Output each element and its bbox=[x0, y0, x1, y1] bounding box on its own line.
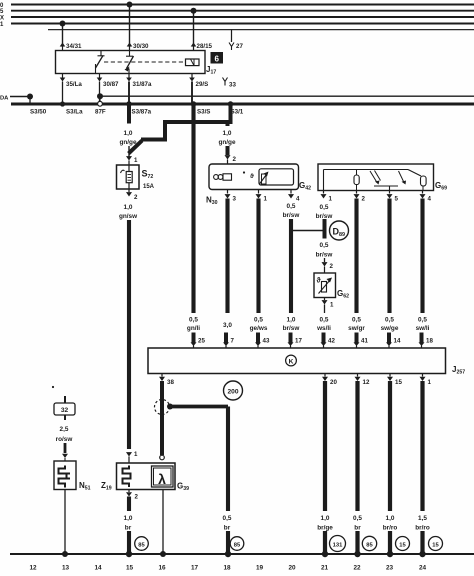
svg-text:33: 33 bbox=[229, 82, 236, 89]
svg-text:br: br bbox=[125, 525, 132, 532]
svg-text:0,5: 0,5 bbox=[287, 203, 296, 210]
svg-text:18: 18 bbox=[426, 338, 433, 345]
svg-text:20: 20 bbox=[288, 565, 296, 572]
svg-text:ϑ: ϑ bbox=[250, 173, 254, 180]
svg-text:85: 85 bbox=[234, 542, 241, 548]
svg-text:1,0: 1,0 bbox=[124, 204, 133, 211]
svg-text:3,0: 3,0 bbox=[223, 322, 232, 329]
svg-text:15: 15 bbox=[126, 565, 134, 572]
svg-text:gn/li: gn/li bbox=[187, 325, 200, 332]
svg-text:3: 3 bbox=[233, 196, 237, 203]
svg-text:K: K bbox=[289, 359, 294, 366]
svg-text:ws/li: ws/li bbox=[316, 325, 331, 332]
svg-text:0,5: 0,5 bbox=[418, 317, 427, 324]
svg-text:0,5: 0,5 bbox=[385, 317, 394, 324]
svg-text:X: X bbox=[0, 16, 4, 22]
svg-text:14: 14 bbox=[94, 565, 102, 572]
svg-text:gn/ge: gn/ge bbox=[218, 139, 235, 146]
svg-text:21: 21 bbox=[321, 565, 329, 572]
svg-text:λ: λ bbox=[158, 471, 166, 487]
svg-text:br/sw: br/sw bbox=[316, 252, 333, 259]
svg-text:6: 6 bbox=[214, 54, 219, 63]
svg-text:24: 24 bbox=[419, 565, 427, 572]
svg-text:12: 12 bbox=[29, 565, 37, 572]
svg-text:sw/gr: sw/gr bbox=[348, 325, 365, 332]
svg-text:1: 1 bbox=[428, 379, 432, 386]
svg-text:gn/sw: gn/sw bbox=[119, 213, 137, 220]
svg-text:17: 17 bbox=[191, 565, 199, 572]
svg-text:15A: 15A bbox=[143, 184, 155, 190]
svg-text:4: 4 bbox=[428, 196, 432, 203]
svg-text:sw/ge: sw/ge bbox=[381, 325, 399, 332]
svg-text:31/87a: 31/87a bbox=[133, 81, 152, 88]
svg-text:16: 16 bbox=[158, 565, 166, 572]
svg-text:0,5: 0,5 bbox=[320, 242, 329, 249]
svg-text:27: 27 bbox=[236, 43, 243, 50]
svg-text:1: 1 bbox=[134, 157, 138, 164]
svg-text:0,5: 0,5 bbox=[320, 317, 329, 324]
svg-text:87F: 87F bbox=[95, 109, 106, 116]
svg-text:br/ge: br/ge bbox=[317, 525, 333, 532]
svg-text:1,0: 1,0 bbox=[124, 515, 133, 522]
svg-text:15: 15 bbox=[432, 542, 439, 548]
svg-text:28/15: 28/15 bbox=[197, 43, 213, 50]
svg-text:2: 2 bbox=[362, 196, 366, 203]
svg-text:ro/sw: ro/sw bbox=[56, 436, 73, 443]
svg-text:0,5: 0,5 bbox=[353, 515, 362, 522]
svg-text:S3/S: S3/S bbox=[197, 109, 210, 116]
svg-text:0,5: 0,5 bbox=[223, 515, 232, 522]
svg-text:2: 2 bbox=[233, 156, 237, 163]
svg-text:38: 38 bbox=[167, 379, 174, 386]
svg-text:20: 20 bbox=[330, 379, 337, 386]
svg-text:sw/li: sw/li bbox=[416, 325, 430, 332]
svg-text:br: br bbox=[354, 525, 361, 532]
svg-text:1: 1 bbox=[329, 196, 333, 203]
svg-text:1: 1 bbox=[264, 196, 268, 203]
svg-text:2,5: 2,5 bbox=[60, 426, 69, 433]
svg-text:0,5: 0,5 bbox=[189, 317, 198, 324]
svg-text:2: 2 bbox=[330, 263, 334, 270]
svg-text:200: 200 bbox=[227, 389, 238, 396]
svg-text:4: 4 bbox=[296, 196, 300, 203]
svg-text:15: 15 bbox=[399, 542, 406, 548]
svg-text:85: 85 bbox=[366, 542, 373, 548]
svg-text:2: 2 bbox=[134, 194, 138, 201]
svg-text:br: br bbox=[224, 525, 231, 532]
svg-text:gn/ge: gn/ge bbox=[119, 139, 136, 146]
svg-text:22: 22 bbox=[353, 565, 361, 572]
svg-text:34/31: 34/31 bbox=[66, 43, 82, 50]
svg-text:32: 32 bbox=[61, 407, 69, 414]
svg-text:br/ro: br/ro bbox=[415, 525, 430, 532]
svg-text:23: 23 bbox=[386, 565, 394, 572]
svg-text:131: 131 bbox=[333, 542, 343, 548]
svg-text:42: 42 bbox=[328, 338, 335, 345]
svg-text:1,0: 1,0 bbox=[321, 515, 330, 522]
svg-text:85: 85 bbox=[138, 542, 145, 548]
svg-text:12: 12 bbox=[363, 379, 370, 386]
svg-text:br/sw: br/sw bbox=[283, 325, 300, 332]
svg-text:1,0: 1,0 bbox=[287, 317, 296, 324]
svg-text:18: 18 bbox=[223, 565, 231, 572]
svg-text:30/87: 30/87 bbox=[103, 81, 119, 88]
svg-text:0,5: 0,5 bbox=[254, 317, 263, 324]
svg-text:1: 1 bbox=[330, 302, 334, 309]
svg-text:41: 41 bbox=[361, 338, 368, 345]
svg-text:ge/ws: ge/ws bbox=[250, 325, 268, 332]
svg-text:30/30: 30/30 bbox=[133, 43, 149, 50]
svg-text:2: 2 bbox=[135, 494, 139, 501]
svg-text:DA: DA bbox=[0, 96, 9, 102]
svg-text:1,5: 1,5 bbox=[418, 515, 427, 522]
svg-text:S3/87a: S3/87a bbox=[132, 109, 152, 116]
svg-text:S3/La: S3/La bbox=[66, 109, 83, 116]
svg-text:43: 43 bbox=[263, 338, 270, 345]
svg-text:17: 17 bbox=[295, 338, 302, 345]
svg-text:0,5: 0,5 bbox=[320, 204, 329, 211]
svg-text:7: 7 bbox=[231, 338, 235, 345]
svg-text:29/S: 29/S bbox=[196, 81, 209, 88]
svg-text:S3/50: S3/50 bbox=[30, 109, 47, 116]
svg-text:13: 13 bbox=[62, 565, 70, 572]
svg-text:19: 19 bbox=[256, 565, 264, 572]
svg-text:1: 1 bbox=[134, 451, 138, 458]
svg-text:br/sw: br/sw bbox=[283, 212, 300, 219]
svg-text:br/sw: br/sw bbox=[316, 213, 333, 220]
svg-text:1,0: 1,0 bbox=[124, 130, 133, 137]
svg-text:1,0: 1,0 bbox=[386, 515, 395, 522]
svg-text:14: 14 bbox=[394, 338, 401, 345]
svg-text:25: 25 bbox=[198, 338, 205, 345]
svg-text:0,5: 0,5 bbox=[352, 317, 361, 324]
svg-text:1,0: 1,0 bbox=[223, 130, 232, 137]
svg-text:35/La: 35/La bbox=[66, 81, 82, 88]
svg-text:15: 15 bbox=[395, 379, 402, 386]
svg-text:br/ro: br/ro bbox=[383, 525, 398, 532]
svg-text:5: 5 bbox=[395, 196, 399, 203]
